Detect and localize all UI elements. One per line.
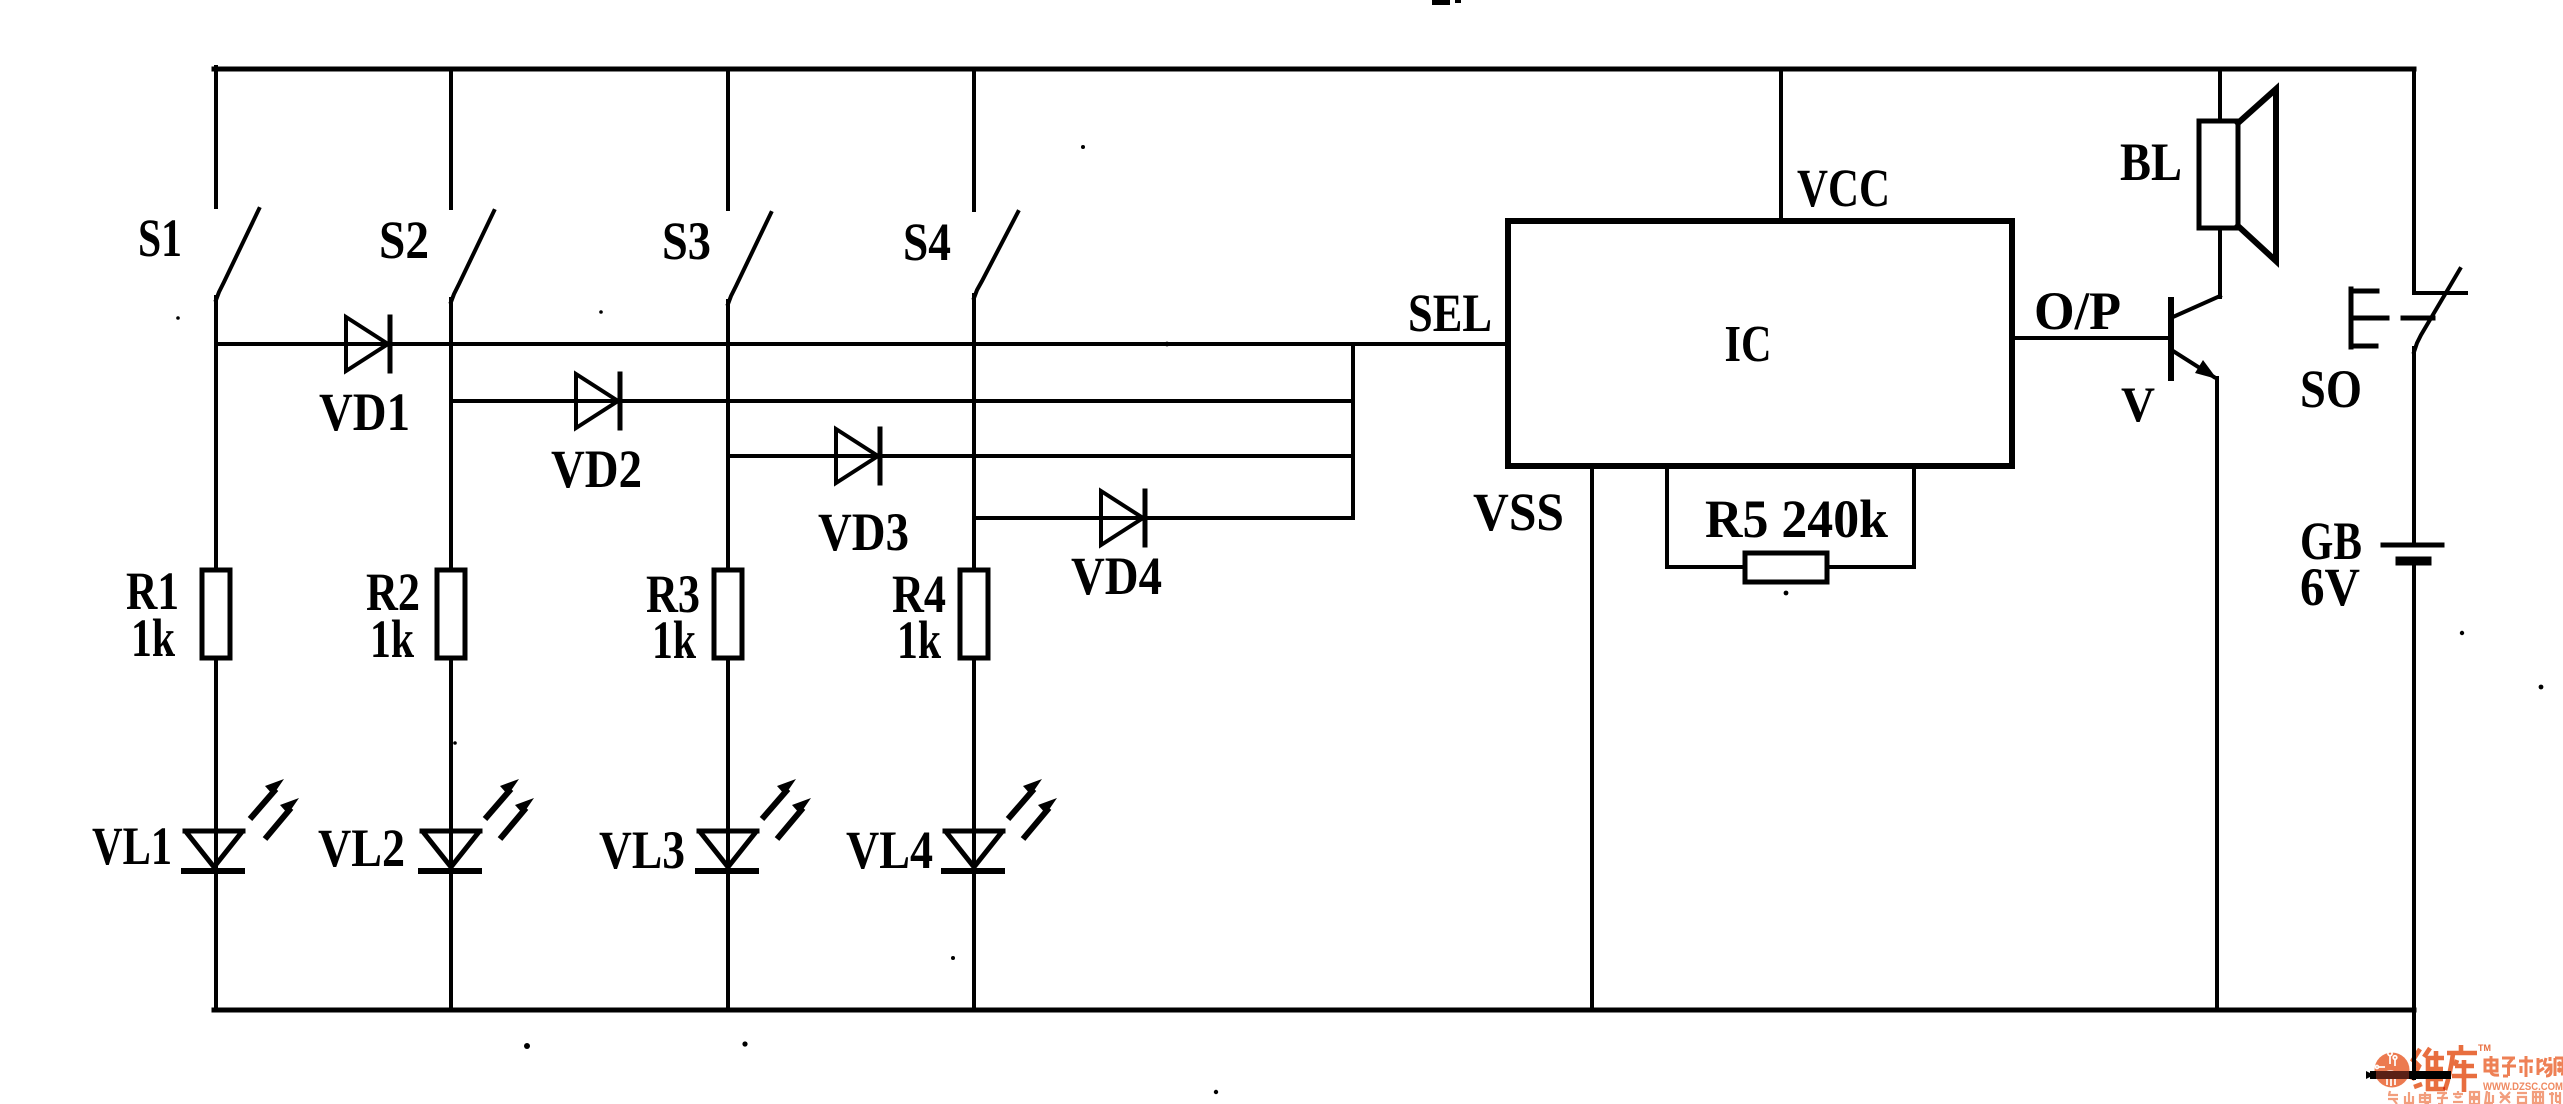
- svg-text:VL3: VL3: [599, 820, 685, 880]
- switch S4: [974, 212, 1018, 298]
- diode VD2: [576, 374, 620, 428]
- wire bus line 2: [451, 399, 1353, 403]
- svg-text:S3: S3: [662, 211, 711, 271]
- resistor R3: [714, 570, 742, 658]
- svg-text:VSS: VSS: [1473, 482, 1564, 542]
- switch SO: [2351, 269, 2466, 352]
- resistor R2: [437, 570, 465, 658]
- resistor R1: [202, 570, 230, 658]
- svg-text:SEL: SEL: [1408, 283, 1492, 343]
- svg-text:S2: S2: [379, 210, 429, 270]
- svg-text:1k: 1k: [370, 609, 414, 669]
- wire bus line 3: [728, 454, 1353, 458]
- wire right column upper: [2412, 69, 2416, 290]
- wire speaker drop: [2218, 69, 2222, 121]
- svg-text:VL1: VL1: [92, 816, 172, 876]
- LED VL2 light arrows: [485, 779, 534, 839]
- wire S4 column lower: [972, 658, 976, 1010]
- svg-text:6V: 6V: [2300, 557, 2360, 617]
- wire S1 column lower: [214, 658, 218, 1010]
- diode VD1: [346, 317, 390, 371]
- wire right column mid: [2412, 348, 2416, 545]
- wire end bar over logo: [2366, 1071, 2447, 1079]
- wire SEL bus line 1: [216, 342, 1508, 346]
- wire S1 column upper: [214, 67, 218, 207]
- svg-text:R5 240k: R5 240k: [1705, 489, 1888, 549]
- LED VL3: [698, 831, 757, 871]
- svg-text:VD1: VD1: [319, 382, 410, 442]
- wire R5 loop left: [1667, 466, 1745, 567]
- wire emitter down: [2215, 378, 2219, 1010]
- watermark brand char 库: [2445, 1045, 2477, 1092]
- wire S1 column mid: [214, 297, 218, 570]
- svg-text:IC: IC: [1725, 316, 1772, 373]
- svg-text:S4: S4: [903, 212, 951, 272]
- LED VL1 light arrows: [250, 779, 299, 839]
- wire R5 loop right: [1827, 466, 1914, 567]
- svg-text:TM: TM: [2478, 1043, 2491, 1053]
- svg-text:VD3: VD3: [818, 502, 909, 562]
- wire speaker to collector: [2218, 228, 2222, 297]
- watermark brand char 维: [2412, 1048, 2445, 1091]
- LED VL2: [421, 831, 480, 871]
- transistor V: [2171, 296, 2220, 378]
- svg-text:1k: 1k: [652, 610, 696, 670]
- wire right column lower: [2412, 566, 2416, 1078]
- svg-text:VD4: VD4: [1071, 546, 1162, 606]
- wire S3 column mid: [726, 301, 730, 570]
- svg-text:VL4: VL4: [846, 820, 933, 880]
- battery GB: [2383, 545, 2442, 561]
- LED VL4 light arrows: [1008, 779, 1057, 839]
- resistor R5: [1745, 553, 1827, 582]
- svg-text:SO: SO: [2300, 359, 2362, 419]
- switch S3: [728, 213, 771, 304]
- wire S4 column mid: [972, 295, 976, 570]
- svg-text:VL2: VL2: [318, 818, 405, 878]
- LED VL4: [944, 831, 1003, 871]
- diode VD4: [1101, 491, 1145, 545]
- wire O/P: [2012, 336, 2168, 340]
- svg-text:WWW.DZSC.COM: WWW.DZSC.COM: [2483, 1081, 2563, 1093]
- svg-text:VCC: VCC: [1797, 158, 1890, 218]
- svg-text:1k: 1k: [131, 608, 175, 668]
- wire bus line 4: [974, 516, 1353, 520]
- wire stub bottom right: [2374, 1071, 2447, 1079]
- wire S2 column lower: [449, 658, 453, 1010]
- wire S2 column mid: [449, 299, 453, 570]
- watermark slogan (approx): [2388, 1091, 2561, 1104]
- svg-text:O/P: O/P: [2034, 281, 2121, 341]
- diode VD3: [836, 429, 880, 483]
- watermark 电子市场网 (approx): [2485, 1056, 2563, 1077]
- LED VL1: [184, 831, 243, 871]
- wire VCC: [1779, 69, 1783, 221]
- svg-text:S1: S1: [138, 208, 182, 268]
- resistor R4: [960, 570, 988, 658]
- speaker BL: [2199, 89, 2276, 261]
- svg-text:BL: BL: [2120, 132, 2182, 192]
- watermark logo circle: [2375, 1051, 2410, 1087]
- transistor emitter arrow: [2195, 360, 2217, 379]
- svg-text:V: V: [2121, 376, 2155, 432]
- wire bus vertical: [1351, 344, 1355, 518]
- LED VL3 light arrows: [762, 779, 811, 839]
- wire bottom rail: [214, 1008, 2414, 1013]
- wire VSS: [1590, 466, 1594, 1010]
- wire top rail: [214, 67, 2414, 72]
- switch S1: [216, 209, 259, 300]
- switch S2: [451, 211, 494, 302]
- op-amp IC box: [1508, 221, 2012, 466]
- wire S2 column upper: [449, 69, 453, 208]
- svg-text:1k: 1k: [897, 610, 941, 670]
- wire S4 column upper: [972, 69, 976, 210]
- wire S3 column upper: [726, 69, 730, 209]
- svg-text:VD2: VD2: [551, 439, 642, 499]
- wire S3 column lower: [726, 658, 730, 1010]
